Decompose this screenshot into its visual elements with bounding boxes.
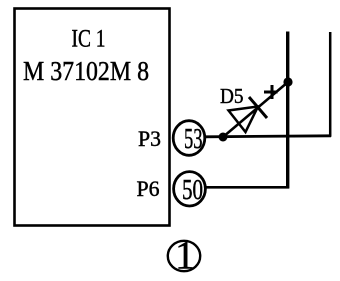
- pin 53 circle: [173, 121, 205, 156]
- wire: pin 53 to right net: [205, 136, 331, 137]
- svg-text:D5: D5: [220, 84, 244, 108]
- polarity plus mark: [271, 85, 274, 99]
- wire diagonal through diode: [223, 82, 288, 137]
- svg-text:50: 50: [182, 175, 203, 206]
- svg-text:M 37102M 8: M 37102M 8: [23, 56, 149, 86]
- wire: pin 50 to vertical: [206, 186, 289, 189]
- cathode bar: [249, 97, 267, 118]
- node junction at diode cathode / vertical wire: [283, 77, 292, 86]
- wire: left vertical: [286, 32, 289, 189]
- pin 50 circle: [174, 172, 206, 206]
- node junction at diode anode: [219, 133, 228, 142]
- svg-text:1: 1: [175, 233, 195, 277]
- IC U1 box: [15, 9, 170, 226]
- svg-text:IC 1: IC 1: [72, 26, 106, 53]
- svg-text:P6: P6: [137, 176, 160, 201]
- triangle: [229, 107, 259, 133]
- wire: right vertical: [329, 32, 332, 137]
- svg-text:53: 53: [184, 124, 203, 155]
- diode D5 body: [223, 82, 288, 137]
- svg-text:P3: P3: [138, 126, 161, 151]
- connector marker circled 1: [168, 241, 200, 271]
